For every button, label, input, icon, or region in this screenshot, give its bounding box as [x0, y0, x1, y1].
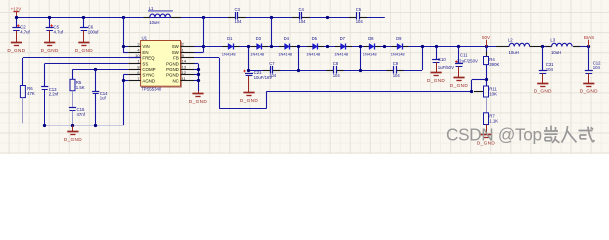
svg-text:2.2nf: 2.2nf: [49, 92, 59, 97]
wire COMP: [73, 69, 129, 79]
wire C6 to ground: [83, 31, 85, 43]
wire PGND to ground: [198, 91, 200, 94]
capacitor C21: [243, 70, 272, 80]
svg-text:1N4148: 1N4148: [334, 52, 349, 57]
ground G10: [534, 84, 552, 94]
svg-text:C5: C5: [356, 7, 362, 12]
ground G7: [427, 73, 445, 83]
wire C5 lead: [49, 17, 51, 28]
svg-text:SW: SW: [172, 44, 180, 49]
svg-text:10uF/16V: 10uF/16V: [254, 75, 273, 80]
svg-text:13: 13: [182, 64, 187, 69]
diode D9: [391, 36, 409, 57]
wire multiplier row2: [249, 70, 422, 72]
svg-text:D_GND: D_GND: [7, 48, 25, 53]
wire diode row / 50V rail: [203, 46, 588, 48]
wire C11 to ground: [458, 67, 460, 78]
capacitor C31: [539, 62, 554, 73]
svg-text:L3: L3: [550, 38, 555, 43]
node VIN junction: [122, 45, 125, 48]
svg-text:C3: C3: [235, 7, 241, 12]
ground G6: [240, 93, 258, 103]
svg-text:L1: L1: [149, 6, 154, 11]
capacitor C6: [80, 25, 99, 35]
svg-text:104: 104: [546, 67, 554, 72]
svg-text:SS: SS: [142, 61, 148, 66]
capacitor C7: [269, 61, 277, 78]
svg-text:C9: C9: [393, 61, 399, 66]
svg-text:C8: C8: [333, 61, 339, 66]
wire comp ground bus: [45, 125, 124, 127]
svg-text:1uF/50V: 1uF/50V: [438, 65, 454, 70]
svg-text:104: 104: [235, 19, 243, 24]
diode D3: [250, 36, 268, 57]
wire row1-row2 link A: [248, 47, 250, 71]
capacitor C4: [299, 7, 307, 24]
wire C12 lead: [588, 47, 590, 71]
wire top-row1 link: [271, 17, 273, 46]
svg-text:PGND: PGND: [166, 67, 179, 72]
wire C5 to ground: [49, 31, 51, 43]
watermark text: [446, 125, 594, 145]
node COMP junction: [94, 68, 97, 71]
capacitor C12: [585, 61, 601, 74]
svg-text:1N4148: 1N4148: [391, 52, 406, 57]
svg-text:104: 104: [593, 65, 601, 70]
wire row2 return: [422, 47, 424, 71]
wire C2 lead: [16, 17, 18, 28]
svg-text:D_GND: D_GND: [534, 89, 552, 94]
svg-text:FREQ: FREQ: [142, 56, 155, 61]
IC U1 TPS55340 boost converter: [128, 35, 194, 91]
pin L3 leads: [546, 46, 581, 48]
svg-text:10uH: 10uH: [509, 50, 519, 55]
svg-text:104: 104: [393, 73, 401, 78]
node FB divider junction: [485, 78, 488, 81]
capacitor C11: [455, 52, 478, 66]
wire SW node: [194, 17, 205, 52]
svg-text:22uF/250V: 22uF/250V: [457, 58, 478, 63]
svg-text:C11: C11: [460, 52, 468, 57]
wire C6 lead: [83, 17, 85, 28]
wire C31 to ground: [542, 73, 544, 83]
svg-text:TPS55340: TPS55340: [141, 86, 162, 91]
ground G11: [580, 84, 598, 94]
svg-text:+12V: +12V: [11, 7, 22, 12]
wire PGND pins: [194, 64, 200, 92]
svg-text:4.7uf: 4.7uf: [20, 30, 30, 35]
svg-text:SW: SW: [172, 50, 180, 55]
power port +12V: [11, 7, 22, 18]
wire C10 lead: [436, 47, 438, 60]
svg-text:D5: D5: [312, 36, 318, 41]
ground G3: [75, 43, 93, 54]
resistor R11: [484, 86, 498, 97]
ground G4: [189, 94, 207, 105]
wire C2 to ground: [16, 31, 18, 43]
svg-text:1N4148: 1N4148: [278, 52, 293, 57]
svg-text:SYNC: SYNC: [142, 73, 154, 78]
svg-text:VIN: VIN: [142, 44, 149, 49]
capacitor C8: [333, 61, 341, 78]
wire R4 upper lead: [486, 47, 488, 57]
svg-text:D7: D7: [340, 36, 346, 41]
svg-text:1N4148: 1N4148: [363, 52, 378, 57]
svg-text:D_GND: D_GND: [64, 137, 82, 142]
wire R4 to R11: [486, 65, 488, 86]
svg-text:D_GND: D_GND: [41, 48, 59, 53]
diode D4: [278, 36, 296, 57]
resistor R4: [484, 57, 500, 68]
diode D7: [334, 36, 352, 57]
resistor R5: [70, 79, 85, 90]
pin R5 to C15: [72, 91, 74, 108]
pin R11 left stub: [474, 91, 484, 93]
svg-text:390K: 390K: [489, 62, 499, 67]
svg-text:1N4148: 1N4148: [306, 52, 321, 57]
wire row1-row2 link B: [298, 47, 300, 71]
svg-text:D3: D3: [256, 36, 262, 41]
ground G8: [450, 78, 468, 89]
svg-text:10uH: 10uH: [551, 50, 561, 55]
svg-text:47nf: 47nf: [77, 112, 86, 117]
wire FREQ to R6: [23, 58, 141, 86]
ground G5: [64, 132, 82, 143]
svg-text:1N4148: 1N4148: [250, 52, 265, 57]
wire +12V top bus: [16, 17, 384, 19]
svg-text:BIAS: BIAS: [584, 35, 594, 40]
capacitor C15: [69, 107, 86, 117]
wire C12 to ground: [588, 73, 590, 83]
junction dots diode row: [235, 7, 602, 145]
ground G2: [41, 43, 59, 54]
pin L2 leads: [496, 46, 542, 48]
svg-text:NC: NC: [172, 78, 178, 83]
svg-text:C10: C10: [438, 57, 446, 62]
svg-text:D_GND: D_GND: [450, 83, 468, 88]
resistor R7: [484, 113, 499, 125]
wire C10 to ground: [436, 62, 438, 72]
wire EN stub: [123, 52, 128, 54]
svg-text:D8: D8: [368, 36, 374, 41]
svg-text:D1: D1: [227, 36, 233, 41]
power port BIAS: [584, 35, 594, 46]
wire C13 lower lead: [44, 90, 46, 126]
wire row1-row2 link C: [360, 47, 362, 71]
pin R6 lower lead: [22, 98, 24, 124]
resistor R6: [20, 86, 34, 98]
diode D8: [363, 36, 381, 57]
capacitor C5b: [356, 7, 364, 24]
pin C15 lower lead: [72, 111, 74, 126]
pin leads on top bus: [144, 17, 368, 19]
wire FB tap: [470, 80, 486, 94]
svg-text:D_GND: D_GND: [240, 98, 258, 103]
diode D5: [306, 36, 324, 57]
svg-text:D4: D4: [284, 36, 290, 41]
wire SYNC AGND: [122, 75, 128, 126]
svg-text:D9: D9: [396, 36, 402, 41]
svg-text:100uf: 100uf: [88, 30, 100, 35]
capacitor C3: [235, 7, 243, 24]
diode D1: [222, 36, 240, 57]
svg-text:104: 104: [356, 19, 364, 24]
ground G9: [477, 135, 495, 146]
svg-text:10uH: 10uH: [149, 20, 159, 25]
svg-text:CSDN @Top: CSDN @Top: [446, 125, 542, 145]
capacitor C10: [432, 57, 454, 70]
power port 50V: [482, 35, 490, 46]
svg-text:1uf: 1uf: [100, 96, 107, 101]
pin R11 to R7: [486, 97, 488, 113]
svg-text:10K: 10K: [489, 92, 497, 97]
wire R7 to ground: [486, 125, 488, 135]
junction dots bottom bus: [43, 124, 97, 127]
svg-text:14: 14: [182, 59, 187, 64]
svg-text:D_GND: D_GND: [580, 89, 598, 94]
wire bus to ground: [72, 126, 74, 132]
inductor L3: [550, 38, 572, 56]
capacitor C13: [41, 87, 59, 97]
svg-text:4.7uf: 4.7uf: [54, 30, 64, 35]
junction dots row2: [247, 69, 362, 72]
svg-text:1N4148: 1N4148: [222, 52, 237, 57]
svg-text:104: 104: [333, 73, 341, 78]
svg-text:47K: 47K: [27, 91, 35, 96]
wire SS to C13: [45, 64, 129, 88]
svg-text:U1: U1: [142, 35, 148, 40]
capacitor C2: [12, 24, 30, 34]
svg-text:C7: C7: [269, 61, 275, 66]
wire C21 to ground: [248, 76, 250, 93]
inductor L2: [508, 38, 530, 56]
wire C14 lower lead: [95, 94, 97, 126]
svg-text:1.1K: 1.1K: [489, 118, 498, 123]
capacitor C14: [92, 91, 108, 101]
svg-text:D_GND: D_GND: [427, 78, 445, 83]
junction dots top bus: [15, 16, 329, 19]
svg-text:1.5K: 1.5K: [76, 85, 85, 90]
svg-text:12: 12: [182, 70, 187, 75]
svg-text:FB: FB: [173, 56, 179, 61]
svg-text:D_GND: D_GND: [75, 48, 93, 53]
svg-text:EN: EN: [142, 50, 148, 55]
wire VIN stub: [123, 46, 128, 48]
svg-text:PGND: PGND: [166, 73, 179, 78]
wire C31 lead: [542, 47, 544, 71]
svg-text:PGND: PGND: [166, 61, 179, 66]
wire FB net: [194, 58, 472, 109]
capacitor C9: [393, 61, 401, 78]
svg-text:L2: L2: [508, 38, 513, 43]
svg-text:50V: 50V: [482, 35, 490, 40]
ground G1: [7, 43, 25, 54]
inductor L1: [148, 6, 173, 25]
wire C11 lead: [458, 47, 460, 64]
capacitor C5: [46, 24, 64, 34]
svg-text:COMP: COMP: [142, 67, 155, 72]
svg-text:D_GND: D_GND: [189, 99, 207, 104]
svg-text:104: 104: [299, 19, 307, 24]
svg-text:C4: C4: [299, 7, 305, 12]
svg-text:AGND: AGND: [142, 78, 155, 83]
wire C14 upper lead: [95, 69, 97, 91]
wire VIN vertical: [123, 17, 125, 52]
